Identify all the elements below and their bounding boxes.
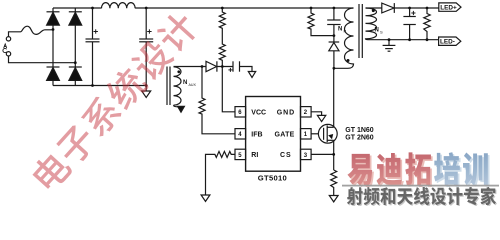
wire top rail left <box>53 7 102 9</box>
junction R1 top rail <box>310 7 313 10</box>
ground arrow RI <box>201 195 210 201</box>
label C4 plus <box>411 11 415 15</box>
watermark logo yiditop <box>347 152 489 187</box>
svg-text:2: 2 <box>304 110 308 116</box>
svg-text:VCC: VCC <box>251 109 266 116</box>
resistor R6 startup upper <box>219 8 225 31</box>
transformer T2 aux winding NAUX <box>174 67 182 105</box>
wire top rail right <box>135 7 353 9</box>
svg-text:N: N <box>338 27 342 33</box>
label AC <box>3 44 7 53</box>
ground arrow R5 <box>329 196 338 202</box>
flag LED+ <box>439 3 461 11</box>
label NP <box>338 27 347 34</box>
pin 3 box <box>301 149 312 159</box>
svg-text:GT 2N60: GT 2N60 <box>345 135 374 142</box>
wire secondary top rail <box>366 7 382 9</box>
wire aux winding bottom <box>174 105 182 107</box>
svg-text:LED-: LED- <box>440 39 455 46</box>
wire bridge left column bottom <box>52 81 54 86</box>
pin 4 box <box>235 129 246 139</box>
svg-text:IFB: IFB <box>251 131 262 138</box>
junction aux winding to R3 <box>201 65 204 68</box>
fuse F1 <box>21 26 54 34</box>
label LED+ <box>440 4 457 11</box>
wire pin2 gnd <box>311 112 322 116</box>
svg-text:LED+: LED+ <box>440 4 457 11</box>
wire vcc <box>222 67 235 112</box>
diode D6 output <box>382 3 395 13</box>
junction C2 top rail <box>145 7 148 10</box>
ground arrow pin2 <box>317 115 325 121</box>
svg-text:RI: RI <box>251 152 258 159</box>
label C1 plus <box>94 29 98 33</box>
ground arrow C5 <box>248 72 255 78</box>
junction C1 bottom rail <box>91 84 94 87</box>
resistor R5 cs <box>331 170 337 196</box>
svg-text:3: 3 <box>304 153 308 159</box>
node secondary dot <box>372 9 375 12</box>
junction R2 top rail <box>426 7 429 10</box>
diode D5 snubber <box>329 42 340 68</box>
wire AC top to fuse <box>9 32 21 37</box>
svg-text:5: 5 <box>238 153 242 159</box>
wire diode to LED+ <box>394 7 439 9</box>
resistor R4 RI <box>206 151 236 195</box>
transformer T1 core <box>359 4 362 58</box>
label GT2N60 <box>345 135 374 142</box>
transistor Q1 mosfet <box>318 124 337 143</box>
ground arrow under C2 <box>142 91 151 98</box>
watermark tagline <box>347 187 497 206</box>
junction C1 top rail <box>91 7 94 10</box>
svg-text:N: N <box>183 80 187 86</box>
label C2 plus <box>147 29 151 33</box>
wire AC bottom to bridge <box>9 56 76 63</box>
transformer T2 core <box>167 67 170 106</box>
ground arrow aux winding <box>178 106 185 112</box>
junction R2 bottom rail <box>426 38 429 41</box>
junction D7 cathode node <box>221 65 224 68</box>
capacitor C5 vcc <box>233 61 252 71</box>
capacitor C4 output <box>403 8 415 40</box>
ground secondary <box>383 40 396 52</box>
wire bottom rail <box>53 85 146 87</box>
capacitor C1 <box>86 8 100 86</box>
wire source <box>333 140 335 170</box>
wire drain <box>333 68 335 127</box>
junction secondary ground <box>388 38 391 41</box>
diode D4 bridge bottom-right <box>69 67 82 80</box>
svg-text:P: P <box>344 29 347 34</box>
diode D7 aux <box>206 61 233 71</box>
resistor R2 output <box>424 8 430 40</box>
pin 6 box <box>235 107 246 117</box>
junction C2 bottom rail <box>145 84 148 87</box>
watermark left red text <box>28 8 201 194</box>
svg-text:6: 6 <box>238 110 242 116</box>
diode D1 bridge top-left <box>47 12 60 25</box>
watermark underline <box>342 185 499 187</box>
capacitor C2 <box>139 8 153 91</box>
label LED- <box>440 39 455 46</box>
wire pin3 cs <box>311 153 334 155</box>
resistor R3 feedback <box>199 67 235 134</box>
label NS <box>375 28 384 35</box>
label GT1N60 <box>345 127 374 134</box>
capacitor C3 snubber <box>327 8 340 42</box>
node primary dot <box>347 59 350 62</box>
transformer T1 primary winding NP <box>334 8 354 68</box>
wire aux winding top <box>174 66 207 68</box>
node aux dot <box>177 70 180 73</box>
AC source V1 <box>6 37 10 56</box>
svg-text:1: 1 <box>304 132 308 138</box>
junction AC to bridge right <box>74 61 77 64</box>
inductor L1 <box>102 3 136 9</box>
svg-text:GND: GND <box>277 109 295 116</box>
svg-text:GT5010: GT5010 <box>258 173 287 182</box>
junction C4 top rail <box>408 7 411 10</box>
flag LED- <box>439 37 461 45</box>
svg-text:AUX: AUX <box>189 83 197 87</box>
junction startup chain top rail <box>221 7 224 10</box>
resistor R7 startup lower <box>219 31 225 67</box>
diode D2 bridge top-right <box>69 12 82 25</box>
label C5 plus <box>228 68 232 72</box>
junction snubber RC to diode <box>333 34 336 37</box>
pin 5 box <box>235 149 246 159</box>
wire secondary bottom rail <box>368 39 439 41</box>
junction AC to bridge left <box>52 28 55 31</box>
svg-text:N: N <box>375 28 379 34</box>
IC U1 GT5010 body <box>246 97 301 172</box>
pin 1 box <box>301 129 312 139</box>
junction C3 top rail <box>333 7 336 10</box>
wire bridge right column bottom <box>74 81 76 86</box>
svg-text:4: 4 <box>238 132 242 138</box>
junction C4 bottom rail <box>408 38 411 41</box>
label NAUX <box>183 80 196 87</box>
svg-text:S: S <box>380 30 383 35</box>
junction CS to source <box>332 153 335 156</box>
node drain primary junction <box>333 67 336 70</box>
pin 2 box <box>301 107 312 117</box>
svg-text:GATE: GATE <box>275 131 295 138</box>
diode D3 bridge bottom-left <box>47 67 60 80</box>
resistor R1 snubber <box>308 8 334 36</box>
wire pin1 gate <box>311 133 324 135</box>
wire bridge right column <box>74 8 76 67</box>
svg-text:CS: CS <box>280 152 292 159</box>
label GT5010 <box>258 173 287 182</box>
transformer T1 secondary winding NS <box>366 8 377 40</box>
wire bridge left column <box>52 8 54 67</box>
svg-text:GT 1N60: GT 1N60 <box>345 127 374 134</box>
